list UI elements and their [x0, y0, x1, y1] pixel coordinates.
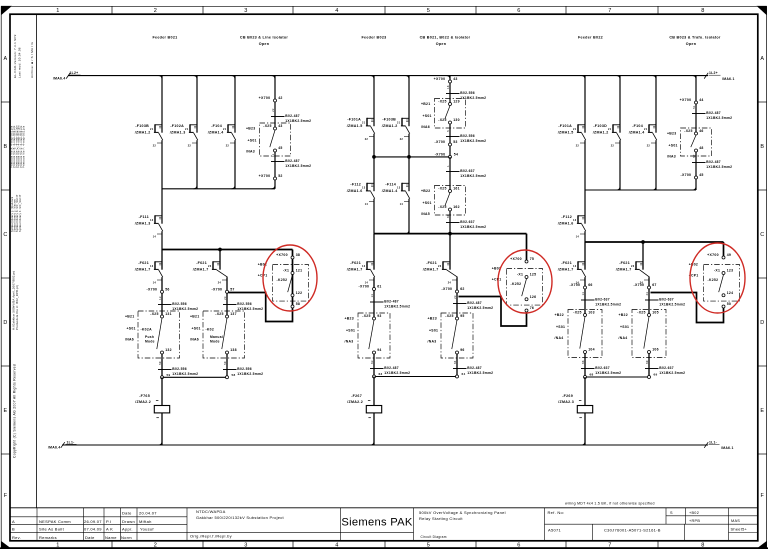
svg-text:48: 48 [699, 146, 703, 150]
wire spec B02-487 [453, 295, 493, 310]
svg-text:42: 42 [278, 96, 282, 100]
svg-text:-K02A: -K02A [141, 328, 153, 332]
terminal -X700:45 [681, 173, 704, 179]
svg-text:wiring MDT 4x4 1.5 BK, if not: wiring MDT 4x4 1.5 BK, if not otherwise … [565, 502, 655, 506]
wire spec B02-487 [271, 108, 311, 123]
svg-text:13: 13 [150, 219, 154, 222]
contact -F112 /ZMA1.6 [558, 215, 586, 239]
svg-text:/NA4: /NA4 [619, 336, 628, 340]
wire spec B02-487 [692, 105, 732, 120]
group3 tier1 branch verticals [582, 76, 657, 224]
header CB B023 & Trafo. Isolator [669, 35, 721, 46]
svg-text:-X25: -X25 [150, 312, 158, 316]
top bus right label 1L2+ /MA6.1 [704, 71, 734, 81]
svg-text:Mode: Mode [210, 340, 220, 344]
svg-text:-F101A: -F101A [347, 118, 361, 122]
svg-text:C30J76001-A5071-S2161-B: C30J76001-A5071-S2161-B [604, 528, 661, 533]
svg-text:/NA3: /NA3 [428, 340, 437, 344]
svg-text:-X25: -X25 [438, 118, 446, 122]
svg-text:Gakkhar 500/220/132kV Substati: Gakkhar 500/220/132kV Substation Project [196, 515, 285, 520]
group2 isolator branch wire [447, 76, 451, 157]
svg-text:/NA4: /NA4 [555, 336, 564, 340]
contact -F621 /ZMA1.7 [558, 261, 586, 285]
svg-text:22: 22 [400, 138, 404, 141]
bottom black bar [0, 547, 768, 549]
svg-text:-X700: -X700 [212, 287, 223, 291]
svg-text:-X1: -X1 [283, 269, 289, 273]
svg-text:7: 7 [608, 8, 611, 14]
contact -F101A /ZMA1.5 [347, 118, 375, 142]
svg-text:Miftah: Miftah [139, 519, 152, 524]
svg-text:Feeder B022: Feeder B022 [578, 35, 603, 39]
group1 marked section wire [229, 250, 293, 322]
svg-text:-X1: -X1 [714, 269, 720, 273]
svg-text:21: 21 [573, 128, 577, 131]
terminal -X700:67 [634, 283, 657, 289]
svg-text:2: 2 [154, 8, 157, 14]
svg-text:52: 52 [278, 174, 282, 178]
svg-text:Symbol library 4: MC_SAFIT: Symbol library 4: MC_SAFIT [19, 194, 22, 232]
svg-text:23: 23 [453, 295, 457, 299]
svg-text:63: 63 [370, 360, 374, 364]
svg-text:5: 5 [427, 8, 430, 14]
svg-text:+X700: +X700 [434, 77, 446, 81]
svg-text:+RPB: +RPB [689, 519, 700, 523]
svg-text:S: S [670, 511, 673, 515]
svg-text:69: 69 [654, 373, 658, 377]
svg-text:43: 43 [453, 77, 457, 81]
svg-text:57: 57 [230, 287, 234, 291]
svg-text:1X1BK2.5mm2: 1X1BK2.5mm2 [285, 119, 311, 123]
group3 branch B wire [643, 242, 649, 377]
svg-text:104: 104 [588, 348, 595, 352]
svg-text:95: 95 [460, 314, 464, 318]
svg-text:21: 21 [150, 128, 154, 131]
group2 marked section wire [459, 234, 527, 326]
svg-text:Ref. No:: Ref. No: [548, 510, 565, 515]
group3 tier1 join bus [585, 189, 696, 191]
svg-text:Open: Open [259, 42, 270, 46]
group1 isolator branch wire [272, 76, 276, 189]
svg-text:131: 131 [165, 312, 172, 316]
svg-text:07.04.09: 07.04.09 [84, 527, 102, 532]
svg-text:64: 64 [453, 360, 457, 364]
group1 coil feed wire [159, 377, 163, 445]
wire spec B02-556 [446, 130, 486, 143]
svg-text:130: 130 [453, 118, 460, 122]
svg-text:B02-556: B02-556 [237, 367, 252, 371]
terminal -X700:56 [147, 287, 170, 293]
revision ellipse group2 [498, 250, 552, 313]
svg-text:51: 51 [692, 105, 696, 109]
svg-text:105: 105 [652, 311, 659, 315]
svg-text:-F114: -F114 [385, 183, 396, 187]
svg-text:59: 59 [167, 373, 171, 377]
svg-text:24: 24 [448, 282, 452, 285]
svg-text:6: 6 [517, 8, 520, 14]
svg-text:4: 4 [335, 8, 338, 14]
svg-text:B: B [760, 144, 764, 150]
svg-text:A5071: A5071 [548, 528, 561, 533]
svg-text:106: 106 [652, 348, 659, 352]
title block texts [12, 502, 748, 540]
svg-text:/MA6.4: /MA6.4 [53, 77, 66, 81]
isolator box -X25 161/162 [421, 186, 466, 217]
terminal +X700:50 [722, 302, 731, 308]
svg-text:B02-487: B02-487 [384, 300, 399, 304]
svg-text:B02-487: B02-487 [706, 111, 721, 115]
group1 branch B wire [220, 250, 227, 378]
svg-text:A K: A K [106, 527, 113, 532]
svg-text:Norm: Norm [121, 535, 132, 540]
wire spec B02-556 [446, 85, 486, 100]
svg-text:+B23: +B23 [667, 132, 676, 136]
svg-text:C: C [3, 232, 7, 238]
group2 isolator lower box wire [449, 157, 451, 234]
svg-text:23: 23 [223, 296, 227, 300]
svg-text:125: 125 [530, 273, 537, 277]
terminal +X700:44 [680, 98, 704, 104]
svg-text:21: 21 [608, 128, 612, 131]
group1 tier1 branch verticals [159, 76, 236, 224]
svg-text:96: 96 [460, 348, 464, 352]
isolator box -X25 95/96 [428, 313, 474, 358]
svg-text:B02-637: B02-637 [460, 220, 475, 224]
svg-text:/ZMA1.6: /ZMA1.6 [558, 221, 574, 225]
group3 coil feed wire [582, 377, 586, 445]
svg-text:/MA6.4: /MA6.4 [48, 446, 61, 450]
svg-text:21: 21 [644, 128, 648, 131]
group2 tier1 join bus [372, 152, 458, 158]
wire spec B02-556 [158, 296, 198, 311]
bottom bus 1L1- /MA6.4 [48, 440, 708, 449]
svg-text:/NA3: /NA3 [667, 155, 676, 159]
svg-text:1X1BK2.5mm2: 1X1BK2.5mm2 [706, 165, 732, 169]
svg-text:A: A [12, 519, 15, 524]
svg-text:123: 123 [727, 269, 734, 273]
svg-text:NESPAK Comm: NESPAK Comm [39, 519, 71, 524]
svg-text:-K252: -K252 [708, 278, 719, 282]
revision ellipse group1 [263, 245, 317, 311]
wire spec B02-556 [223, 296, 263, 311]
svg-text:38: 38 [296, 253, 300, 257]
aux switch box -K02 (Manual Mode) [190, 311, 245, 358]
isolator box -X25 43/45 [246, 123, 291, 156]
svg-text:+X700: +X700 [707, 253, 719, 257]
marked box -K252 [492, 267, 543, 306]
svg-text:-F267: -F267 [351, 394, 362, 398]
svg-text:-F112: -F112 [350, 183, 361, 187]
svg-text:/ZMA1.5: /ZMA1.5 [558, 130, 574, 134]
svg-text:62: 62 [460, 287, 464, 291]
svg-text:122: 122 [296, 291, 303, 295]
svg-text:+B23: +B23 [345, 317, 354, 321]
svg-text:1X1BK2.5mm2: 1X1BK2.5mm2 [384, 371, 410, 375]
terminal -X700:57 [212, 287, 235, 293]
svg-text:1L1-: 1L1- [67, 440, 75, 444]
svg-text:-F621: -F621 [426, 261, 437, 265]
svg-text:23: 23 [631, 265, 635, 268]
title block grid [10, 508, 758, 541]
wire spec B02-487 [271, 153, 311, 168]
svg-text:+B21: +B21 [190, 315, 199, 319]
svg-text:-X700: -X700 [435, 140, 446, 144]
svg-text:45: 45 [278, 146, 282, 150]
svg-text:-F104: -F104 [211, 124, 222, 128]
svg-text:13: 13 [370, 294, 374, 298]
svg-text:B02-556: B02-556 [460, 134, 475, 138]
group1 node bus [162, 231, 293, 251]
svg-text:-F112: -F112 [561, 215, 572, 219]
svg-text:/ZMA2.2: /ZMA2.2 [135, 400, 151, 404]
svg-text:68: 68 [590, 373, 594, 377]
wire spec B02-487 [453, 360, 493, 375]
svg-text:/ZMA1.6: /ZMA1.6 [347, 189, 363, 193]
svg-text:+S01: +S01 [192, 326, 201, 330]
svg-text:-X700: -X700 [570, 283, 581, 287]
svg-text:B02-637: B02-637 [460, 169, 475, 173]
svg-text:-F103B: -F103B [382, 118, 396, 122]
svg-text:-X700: -X700 [147, 287, 158, 291]
svg-text:-X25: -X25 [684, 129, 692, 133]
svg-text:+S01: +S01 [669, 143, 678, 147]
wire spec B02-637 [446, 214, 486, 229]
group1 tier1 join bus [162, 188, 275, 190]
svg-text:-F621: -F621 [619, 261, 630, 265]
svg-text:+B23: +B23 [246, 127, 255, 131]
svg-text:+S01: +S01 [423, 114, 432, 118]
right ruler letters [758, 56, 767, 499]
svg-text:Site As Built: Site As Built [39, 527, 65, 532]
svg-text:-X25: -X25 [263, 124, 271, 128]
svg-text:-X700: -X700 [435, 152, 446, 156]
svg-text:1X1BK2.5mm2: 1X1BK2.5mm2 [460, 174, 486, 178]
svg-text:A: A [760, 56, 764, 62]
terminal +X700:52 [259, 174, 283, 180]
svg-text:Promodule file C: B02_RPB.prj: Promodule file C: B02_RPB.prj [15, 285, 19, 330]
svg-text:24: 24 [218, 282, 222, 285]
svg-text:1X1BK2.5mm2: 1X1BK2.5mm2 [384, 304, 410, 308]
svg-text:22: 22 [271, 108, 275, 112]
svg-text:-X25: -X25 [573, 311, 581, 315]
wire spec B02-487 [692, 154, 732, 169]
svg-text:B02-637: B02-637 [595, 366, 610, 370]
svg-text:11: 11 [271, 153, 275, 157]
svg-text:18: 18 [446, 85, 450, 89]
group2 branch B wire [450, 234, 457, 377]
svg-text:B02-487: B02-487 [285, 159, 300, 163]
wire spec B02-637 [446, 165, 486, 178]
svg-text:59: 59 [158, 361, 162, 365]
terminal -X700:61 [359, 285, 382, 291]
svg-text:58: 58 [296, 302, 300, 306]
isolator box -X25 129/130 [421, 99, 466, 130]
svg-text:Appr.: Appr. [122, 527, 133, 532]
svg-text:Manual: Manual [210, 335, 223, 339]
svg-text:B: B [12, 527, 15, 532]
svg-text:Feeder B021: Feeder B021 [152, 35, 177, 39]
header CB B023 & Line Isolator [240, 35, 289, 46]
svg-text:B02-487: B02-487 [285, 114, 300, 118]
top bus 1L2+ /MA6.4 [53, 71, 708, 81]
left ruler letters [1, 56, 10, 499]
svg-text:500kV OverVoltage & Synchroniz: 500kV OverVoltage & Synchronizing Panel [419, 510, 506, 515]
svg-text:22: 22 [226, 145, 230, 148]
svg-text:21: 21 [185, 128, 189, 131]
svg-text:22: 22 [365, 138, 369, 141]
svg-text:8: 8 [701, 8, 704, 14]
wire spec B02-487 [370, 360, 410, 375]
svg-text:137: 137 [230, 312, 237, 316]
svg-text:+X700: +X700 [276, 253, 288, 257]
terminal +X700:49 [707, 253, 731, 259]
marked box -K252 [258, 263, 309, 302]
terminal +X700:38 [276, 253, 300, 259]
svg-text:13: 13 [581, 292, 585, 296]
svg-text:/ZMA1.7: /ZMA1.7 [423, 267, 439, 271]
svg-text:1: 1 [56, 8, 59, 14]
svg-text:A: A [4, 56, 8, 62]
terminal +X700:76 [525, 306, 534, 312]
svg-text:13: 13 [573, 219, 577, 222]
coil -F267 /ZMA2.2 [347, 394, 381, 418]
svg-text:22: 22 [647, 145, 651, 148]
svg-text:B02-637: B02-637 [659, 298, 674, 302]
svg-text:56: 56 [165, 287, 169, 291]
group3 lower join wire [584, 373, 658, 379]
group2 tier2 verticals [374, 157, 409, 234]
svg-text:Sheet5+: Sheet5+ [731, 527, 748, 532]
wire spec B02-637 [581, 360, 621, 375]
svg-text:1X1BK2.5mm2: 1X1BK2.5mm2 [659, 371, 685, 375]
svg-text:13: 13 [573, 265, 577, 268]
svg-text:64: 64 [462, 372, 466, 376]
svg-text:Date: Date [122, 511, 132, 516]
svg-text:58: 58 [232, 373, 236, 377]
svg-text:1X1BK2.5mm2: 1X1BK2.5mm2 [467, 306, 493, 310]
svg-text:45: 45 [699, 173, 703, 177]
svg-text:B02-487: B02-487 [706, 160, 721, 164]
svg-text:Feeder B023: Feeder B023 [361, 35, 386, 39]
svg-text:/ZMA1.7: /ZMA1.7 [135, 267, 151, 271]
svg-text:-X25: -X25 [438, 100, 446, 104]
svg-text:Remarks: Remarks [39, 535, 57, 540]
group2 branch A wire [373, 234, 375, 377]
svg-text:54: 54 [454, 152, 458, 156]
wire spec B02-487 [370, 294, 410, 309]
svg-text:76: 76 [530, 306, 534, 310]
svg-text:-F103D: -F103D [593, 124, 607, 128]
contact -F111 /ZMA1.3 [135, 215, 163, 239]
svg-text:/ZMA1.2: /ZMA1.2 [593, 130, 609, 134]
svg-text:+B22: +B22 [421, 189, 430, 193]
svg-text:1X1BK2.5mm2: 1X1BK2.5mm2 [659, 302, 685, 306]
isolator box -X25 93/94 [345, 313, 391, 358]
svg-text:H:/Gakkhar 500kV/BA April_200: H:/Gakkhar 500kV/BA April_2007/B02.prj [12, 270, 16, 330]
terminal +X700:43 [434, 77, 458, 83]
contact -F104 /ZMA1.4 [629, 124, 657, 148]
svg-text:/NA6: /NA6 [125, 338, 134, 342]
svg-text:+CP1: +CP1 [492, 278, 502, 282]
svg-text:/ZMA1.7: /ZMA1.7 [616, 267, 632, 271]
svg-text:21: 21 [397, 121, 401, 124]
svg-text:-F102A: -F102A [170, 124, 184, 128]
svg-text:/ZMA1.3: /ZMA1.3 [135, 221, 151, 225]
svg-text:21: 21 [362, 121, 366, 124]
svg-text:+B23: +B23 [428, 317, 437, 321]
svg-text:+S01: +S01 [423, 201, 432, 205]
svg-text:/ZMA1.7: /ZMA1.7 [193, 267, 209, 271]
svg-text:+S01: +S01 [248, 138, 257, 142]
svg-text:13: 13 [397, 186, 401, 189]
svg-text:-X25: -X25 [438, 187, 446, 191]
svg-text:/ZMA1.7: /ZMA1.7 [347, 267, 363, 271]
svg-text:-X1: -X1 [517, 273, 523, 277]
svg-text:CB B023 & Line Isolator: CB B023 & Line Isolator [240, 35, 289, 39]
wire spec B02-556 [223, 361, 263, 376]
svg-text:1X1BK2.5mm2: 1X1BK2.5mm2 [595, 371, 621, 375]
svg-text:-F765: -F765 [139, 394, 150, 398]
svg-text:Yousuf: Yousuf [140, 527, 154, 532]
svg-text:+S01: +S01 [127, 326, 136, 330]
svg-text:CB B023 & Trafo. Isolator: CB B023 & Trafo. Isolator [669, 35, 721, 39]
svg-text:13: 13 [150, 265, 154, 268]
svg-text:-X25: -X25 [445, 314, 453, 318]
svg-text:-X700: -X700 [442, 287, 453, 291]
group2 tier1 branch verticals [371, 76, 410, 157]
svg-text:44: 44 [699, 98, 703, 102]
svg-text:-F101A: -F101A [558, 124, 572, 128]
svg-text:43: 43 [278, 124, 282, 128]
svg-text:46: 46 [699, 129, 703, 133]
svg-text:1X1BK2.5mm2: 1X1BK2.5mm2 [706, 116, 732, 120]
svg-text:13: 13 [362, 265, 366, 268]
svg-text:B02-487: B02-487 [467, 301, 482, 305]
svg-text:/MA6.1: /MA6.1 [722, 77, 735, 81]
group1 lower join wire [161, 373, 236, 379]
svg-text:13: 13 [362, 186, 366, 189]
coil -F765 /ZMA2.2 [135, 394, 169, 418]
svg-text:50: 50 [727, 302, 731, 306]
svg-text:1X1BK2.5mm2: 1X1BK2.5mm2 [460, 225, 486, 229]
svg-text:Open: Open [436, 42, 447, 46]
svg-text:21: 21 [223, 128, 227, 131]
svg-text:Archive: ■ / S / MA / G: Archive: ■ / S / MA / G [30, 42, 34, 78]
svg-text:P.I: P.I [106, 519, 111, 524]
contact -F621 /ZMA1.7 [616, 261, 650, 285]
svg-text:Name: Name [105, 535, 117, 540]
svg-text:26.09.07: 26.09.07 [84, 519, 102, 524]
svg-text:138: 138 [230, 348, 237, 352]
contact -F621 /ZMA1.7 [423, 261, 458, 285]
svg-text:/NA6: /NA6 [190, 338, 199, 342]
svg-text:/NA5: /NA5 [421, 212, 430, 216]
svg-text:-X25: -X25 [438, 205, 446, 209]
terminal +X700:58 [291, 302, 300, 308]
wire spec B02-637 [581, 292, 621, 307]
contact -F103B /ZMA1.2 [135, 124, 163, 148]
svg-text:22: 22 [611, 145, 615, 148]
contact -F621 /ZMA1.7 [347, 261, 375, 285]
terminal -X700:62 [442, 287, 465, 293]
svg-text:B02-556: B02-556 [172, 302, 187, 306]
wire spec B02-556 [158, 361, 198, 376]
svg-text:23: 23 [208, 265, 212, 268]
svg-text:1: 1 [446, 165, 450, 167]
svg-text:5: 5 [446, 130, 450, 132]
svg-text:69: 69 [645, 360, 649, 364]
svg-text:53: 53 [453, 140, 457, 144]
